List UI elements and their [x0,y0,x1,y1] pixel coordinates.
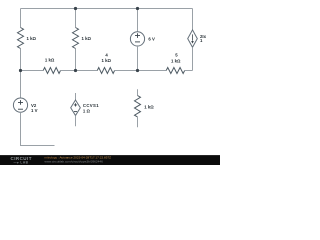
wire second vertical lower [75,49,77,71]
wire middle rail segment 4 [185,70,193,72]
wire third vertical upper stub [137,9,139,32]
junction middle node A [74,69,77,72]
dependent source CCVS1 bottom stub [75,116,77,127]
wire middle rail segment 3 [115,70,167,72]
junction top node B [136,7,139,10]
junction middle node B [136,69,139,72]
svg-text:1 kΩ: 1 kΩ [82,36,92,41]
wire right vertical upper stub [192,9,194,30]
resistor R4 1kΩ (middle horizontal) [97,68,114,74]
junction top node A [74,7,77,10]
wire middle rail segment 2 [61,70,98,72]
CCVS1 plus sign [74,103,77,106]
resistor R6 1kΩ top stub [137,89,139,95]
resistor R1 1kΩ (left vertical) [18,28,24,49]
resistor R6 1kΩ (bottom vertical) [135,96,141,117]
V2 plus sign [18,100,23,105]
dependent source CCVS1 top stub [75,93,77,100]
resistor R5 1kΩ (middle right horizontal) [166,68,184,74]
wire left vertical upper stub [20,9,22,28]
svg-text:6 V: 6 V [148,36,155,41]
svg-text:1 kΩ: 1 kΩ [102,58,112,63]
junction middle node left [19,69,22,72]
wire right vertical lower [192,47,194,70]
CCVS1 minus sign [74,111,77,113]
svg-text:1 Ω: 1 Ω [83,108,91,113]
V2 minus sign [18,108,23,110]
svg-text:www.circuitlab.com/circuit/cqr: www.circuitlab.com/circuit/cqrs3b/396244… [45,159,104,163]
footer bar [0,155,220,165]
svg-text:1 V: 1 V [31,108,38,113]
wire top rail [21,8,193,10]
I1 arrow [192,34,194,40]
wire left vertical lower [21,112,55,145]
svg-text:―▸ LAB: ―▸ LAB [14,161,29,165]
current source I1 2Ix (diamond) [188,30,198,47]
resistor R3 1kΩ (middle left horizontal) [43,68,60,74]
wire second vertical upper stub [75,9,77,28]
wire left vertical mid [20,49,22,99]
svg-text:1 kΩ: 1 kΩ [27,36,37,41]
V1 minus sign [135,41,140,43]
V1 plus sign [135,33,140,38]
resistor R2 1kΩ (second vertical) [73,28,79,49]
dependent source CCVS1 (diamond) [71,100,81,116]
voltage source V2 [13,98,27,112]
voltage source V1 6V [130,32,144,46]
svg-text:1 kΩ: 1 kΩ [171,59,181,64]
svg-text:1 kΩ: 1 kΩ [144,105,154,110]
svg-text:1 kΩ: 1 kΩ [45,57,55,62]
wire middle rail segment 1 [21,70,44,72]
wire third vertical lower [137,46,139,71]
resistor R6 bottom stub [137,117,139,127]
